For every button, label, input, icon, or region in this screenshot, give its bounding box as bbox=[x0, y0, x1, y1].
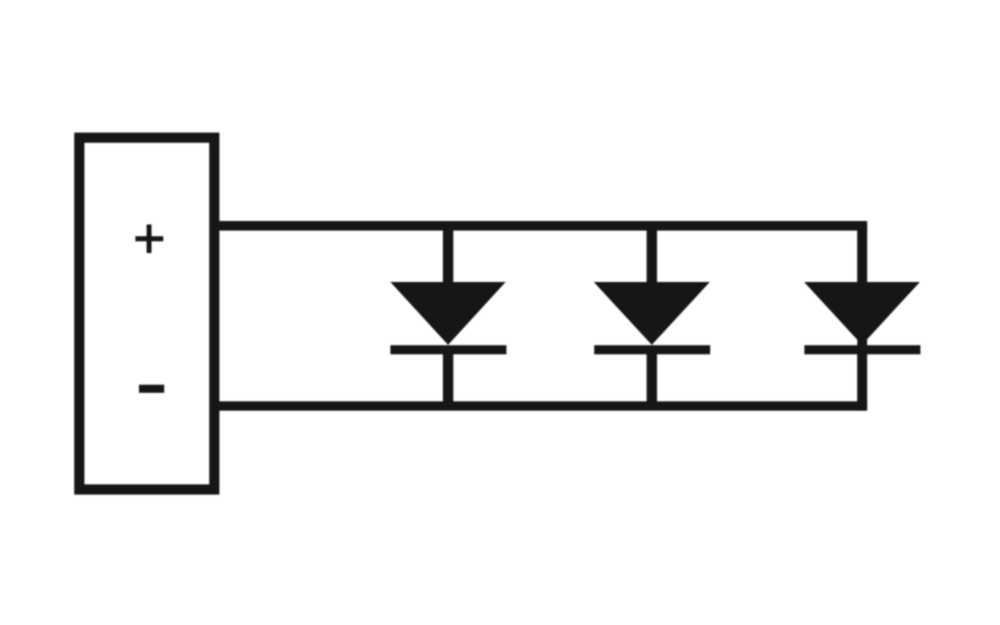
wire: diode D2 cathode lead bbox=[647, 352, 657, 406]
wire: diode D2 anode lead bbox=[647, 226, 657, 283]
diode D1 triangle (anode) bbox=[390, 282, 505, 345]
wire: diode D1 cathode lead bbox=[443, 352, 453, 406]
diode D2 cathode bar bbox=[594, 345, 710, 354]
diode D3 triangle (anode) bbox=[804, 282, 920, 345]
wire: diode D3 anode lead bbox=[857, 226, 867, 283]
diode D2 triangle (anode) bbox=[594, 282, 710, 345]
battery plus terminal label bbox=[135, 225, 163, 254]
diode D3 cathode bar bbox=[804, 345, 920, 354]
wire: right vertical segment joining rails bbox=[857, 221, 867, 411]
wire: bottom rail (negative bus) bbox=[216, 401, 867, 410]
battery minus terminal label bbox=[139, 385, 164, 393]
wire: diode D1 anode lead bbox=[443, 226, 453, 283]
wire: top rail (positive bus) bbox=[216, 221, 867, 231]
diode D1 cathode bar bbox=[390, 345, 506, 354]
wire: diode D3 cathode lead bbox=[857, 352, 867, 406]
battery BT1 (rectangular source box) bbox=[79, 138, 214, 490]
